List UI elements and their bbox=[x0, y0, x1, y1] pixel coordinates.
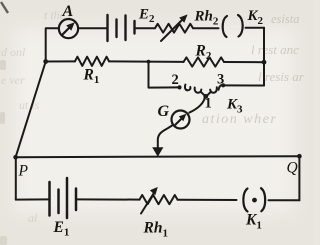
wire ammeter to battery E2 bbox=[78, 27, 107, 29]
page-edge smudges bbox=[1, 2, 8, 13]
svg-text:2: 2 bbox=[172, 72, 179, 88]
svg-text:A: A bbox=[62, 3, 74, 20]
galvanometer G circle bbox=[172, 111, 190, 129]
wire Rh2 to key K2 bbox=[193, 27, 219, 29]
wire Rh1 to key K1 bbox=[178, 199, 237, 201]
contact 3 dot bbox=[221, 83, 225, 87]
svg-text:Q: Q bbox=[287, 160, 298, 177]
svg-text:esista: esista bbox=[271, 12, 299, 26]
potentiometer wire P-Q bbox=[16, 156, 300, 157]
node P dot bbox=[13, 155, 18, 160]
svg-text:l resis ar: l resis ar bbox=[258, 69, 305, 84]
bleed-through text (faint) bbox=[202, 12, 305, 127]
wire E1 to Rh1 bbox=[76, 198, 140, 200]
right rail junction dot bbox=[262, 60, 267, 65]
key K2 left contact bbox=[223, 16, 227, 37]
node Q dot bbox=[297, 154, 302, 159]
ammeter needle bbox=[63, 28, 70, 35]
left rail P down bbox=[15, 157, 17, 199]
key K1 left contact bbox=[243, 189, 247, 212]
wire K1 to right rail bbox=[269, 199, 300, 201]
rheostat Rh1 arrow shaft bbox=[141, 192, 155, 214]
middle wire node to R1 bbox=[46, 60, 75, 62]
key K3 arm stem right bbox=[207, 92, 211, 95]
svg-text:d onl: d onl bbox=[1, 45, 26, 59]
key K3 plug arm from 1 (left) bbox=[195, 88, 202, 93]
rheostat Rh2 arrowhead bbox=[179, 14, 187, 22]
key K1 plug dot bbox=[252, 198, 257, 203]
lighter paper centre bbox=[14, 28, 294, 213]
bottom wire to battery E1 bbox=[16, 198, 50, 200]
svg-text:1: 1 bbox=[205, 96, 212, 112]
rheostat Rh1 zigzag bbox=[140, 195, 178, 204]
key K3 plug arm from 1 (right) bbox=[210, 87, 217, 92]
svg-text:al: al bbox=[28, 211, 38, 225]
diagonal wire node to P bbox=[16, 62, 46, 158]
rheostat Rh1 arrowhead bbox=[150, 187, 158, 195]
branch wire down to key K3 contact 2 bbox=[149, 62, 180, 88]
svg-text:e ver: e ver bbox=[1, 73, 25, 87]
battery E2 plates bbox=[106, 15, 108, 41]
resistor R1 zigzag bbox=[75, 57, 109, 66]
branch junction dot bbox=[147, 60, 151, 64]
point 1 junction dot bbox=[203, 94, 208, 99]
key K3 arm stem left bbox=[201, 92, 205, 95]
key K3 socket hook at 2 bbox=[185, 85, 190, 91]
svg-text:ut is: ut is bbox=[19, 98, 40, 112]
ammeter U-A circle bbox=[59, 19, 78, 38]
key K1 right contact bbox=[261, 188, 265, 211]
wire K2 to right rail bbox=[246, 27, 265, 29]
rheostat Rh2 arrow shaft bbox=[161, 19, 183, 41]
right rail wire bbox=[263, 28, 265, 86]
wire R2 to right rail junction bbox=[224, 61, 264, 63]
wire battery E2 to rheostat Rh2 bbox=[135, 27, 156, 29]
svg-text:3: 3 bbox=[217, 72, 224, 88]
svg-text:P: P bbox=[18, 163, 29, 180]
wire R1 to R2 bbox=[109, 60, 184, 63]
wire galvanometer to jockey bbox=[158, 125, 173, 148]
rheostat Rh2 zigzag bbox=[155, 24, 193, 33]
svg-text:l rest anc: l rest anc bbox=[251, 42, 299, 57]
wire contact 3 to right rail bbox=[223, 84, 264, 86]
key K3 socket hook at 3 bbox=[219, 85, 224, 90]
node junction dot bbox=[43, 59, 48, 64]
resistor R2 zigzag bbox=[184, 57, 225, 66]
contact 2 dot bbox=[177, 85, 181, 89]
svg-text:G: G bbox=[158, 103, 170, 120]
jockey arrowhead bbox=[152, 147, 163, 157]
wire top-left corner to ammeter bbox=[46, 28, 59, 61]
right rail Q down bbox=[298, 156, 300, 200]
battery E1 plates bbox=[48, 182, 51, 216]
key K2 right contact bbox=[238, 15, 243, 37]
galvanometer needle arrowhead bbox=[179, 114, 187, 122]
wire point 1 to galvanometer bbox=[189, 97, 205, 113]
ammeter needle arrowhead bbox=[66, 22, 75, 30]
galvanometer needle bbox=[175, 119, 181, 125]
